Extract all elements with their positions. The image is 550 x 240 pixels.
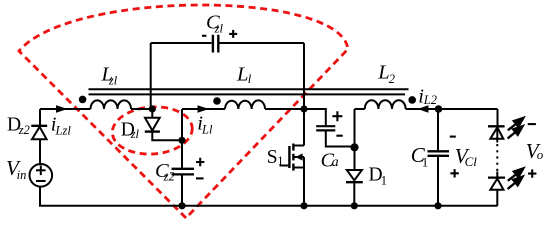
svg-text:zl: zl [130, 127, 140, 141]
svg-text:in: in [17, 168, 27, 182]
svg-text:1: 1 [277, 154, 283, 168]
svg-text:S: S [267, 147, 278, 168]
svg-text:Cl: Cl [465, 154, 478, 169]
svg-text:a: a [332, 155, 339, 170]
svg-text:z2: z2 [163, 170, 175, 184]
svg-text:L: L [236, 64, 248, 86]
svg-text:l: l [248, 72, 252, 86]
svg-text:zl: zl [214, 22, 224, 36]
svg-text:o: o [537, 147, 544, 162]
svg-text:1: 1 [381, 173, 387, 187]
svg-text:z2: z2 [18, 123, 30, 137]
svg-text:2: 2 [389, 72, 395, 86]
svg-text:L2: L2 [423, 93, 437, 107]
svg-text:1: 1 [422, 156, 428, 170]
svg-text:Ll: Ll [201, 123, 213, 137]
svg-text:zl: zl [108, 74, 118, 88]
svg-text:Lzl: Lzl [55, 124, 72, 138]
